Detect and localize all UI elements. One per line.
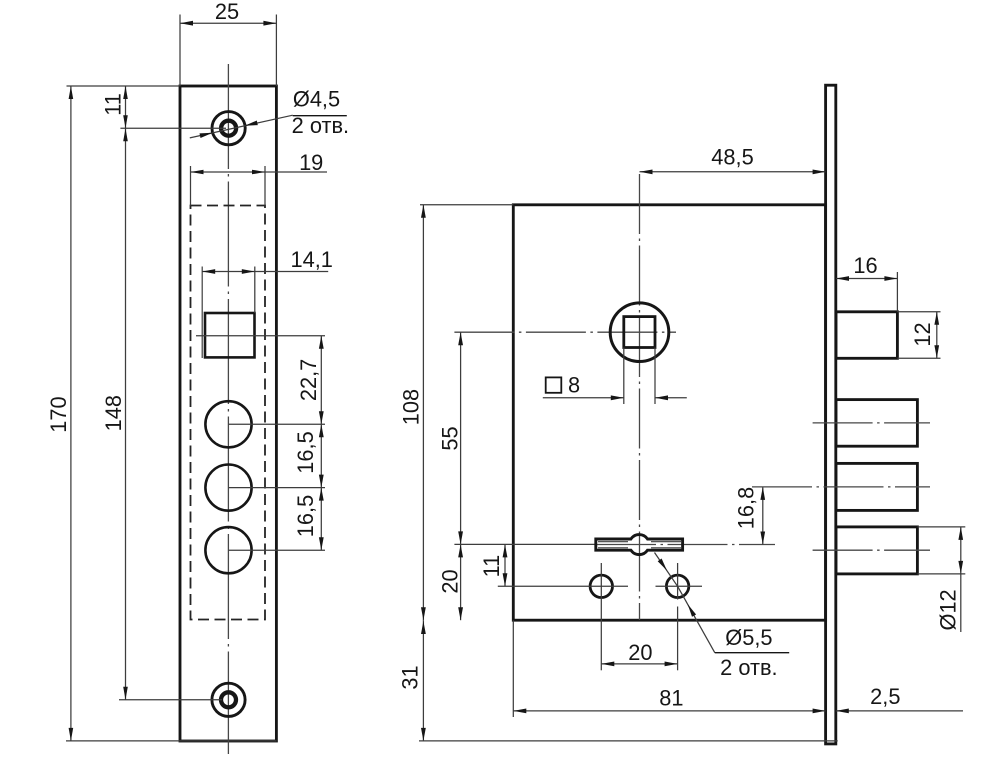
- dimension Ø12 extension lines: [917, 527, 965, 574]
- dimension 19 extension lines: [191, 166, 266, 206]
- dimension 48,5: [640, 145, 826, 175]
- fixing screw hole right Ø5,5: [666, 575, 688, 597]
- dimension square-8 extension lines: [624, 348, 655, 405]
- dimension 81 extension line: [512, 620, 514, 717]
- svg-text:11: 11: [479, 555, 504, 578]
- deadbolt pin 3 centerline: [813, 549, 930, 551]
- top extension line: [67, 85, 180, 87]
- bottom screw hole Ø4,5: [212, 683, 245, 716]
- svg-text:2 отв.: 2 отв.: [292, 113, 349, 138]
- dimension 2,5: [836, 684, 963, 713]
- faceplate front view outline 25x170: [180, 86, 276, 741]
- svg-text:108: 108: [399, 389, 424, 425]
- svg-text:22,7: 22,7: [296, 359, 321, 401]
- dimension Ø12: [936, 527, 963, 632]
- dimension 14,1: [202, 247, 333, 274]
- svg-text:Ø5,5: Ø5,5: [725, 625, 772, 650]
- top screw hole Ø4,5: [212, 112, 245, 145]
- dimension 20 left of body: [438, 544, 463, 620]
- hidden dashed lock-body outline behind faceplate: [191, 206, 266, 620]
- deadbolt pin 1 centerline: [813, 422, 930, 424]
- dimension 148: [101, 128, 128, 700]
- leader line to Ø4,5 label: [190, 115, 293, 138]
- dimension square-8: [543, 395, 687, 400]
- latch bolt cutout square 14,1: [202, 267, 254, 359]
- top screw hole horizontal centerline: [120, 127, 226, 129]
- leader line to Ø5,5 label: [655, 553, 715, 653]
- dimension 11 left view: [101, 86, 128, 128]
- svg-text:55: 55: [438, 426, 463, 450]
- dimension 31: [398, 620, 426, 741]
- dimension 16,5 upper: [293, 424, 324, 487]
- spindle hub vertical centerline: [639, 174, 641, 620]
- svg-text:16,8: 16,8: [733, 487, 758, 529]
- deadbolt pin 2 centerline: [752, 486, 930, 488]
- svg-text:14,1: 14,1: [290, 247, 332, 272]
- svg-text:2 отв.: 2 отв.: [720, 655, 777, 680]
- latch bolt protruding: [836, 312, 897, 359]
- label Ø4,5 2 otv: [292, 87, 349, 138]
- deadbolt hole 3: [205, 527, 325, 573]
- dimension 170: [46, 86, 73, 741]
- fixing screw hole right crosshair: [656, 563, 703, 670]
- deadbolt pin 1: [836, 400, 917, 447]
- deadbolt pin 2: [836, 463, 917, 510]
- deadbolt pin 3: [836, 527, 917, 574]
- dimension 20 bottom: [601, 640, 677, 666]
- dimension 16: [836, 253, 897, 281]
- dimension 81: [513, 686, 825, 714]
- dimension 12 extension lines: [897, 312, 940, 359]
- spindle hub horizontal centerline: [454, 331, 676, 333]
- dimension 25 extension lines: [180, 15, 276, 87]
- svg-text:148: 148: [101, 395, 126, 431]
- svg-text:8: 8: [568, 372, 580, 397]
- dimension 16,5 lower: [293, 488, 324, 551]
- faceplate edge-on strip 2,5 thick: [826, 85, 836, 744]
- dimension 12: [910, 312, 939, 359]
- dimension 11 right view: [479, 544, 507, 586]
- svg-text:170: 170: [46, 396, 71, 432]
- svg-text:2,5: 2,5: [870, 684, 900, 709]
- svg-text:16,5: 16,5: [293, 431, 318, 473]
- svg-text:Ø4,5: Ø4,5: [293, 87, 340, 112]
- fixing screw hole left crosshair: [498, 563, 628, 670]
- key slot centerline dashdot: [596, 544, 775, 546]
- svg-text:11: 11: [101, 93, 126, 116]
- faceplate vertical centerline: [227, 64, 229, 754]
- latch centerline horizontal: [196, 335, 325, 337]
- bottom extension line left view: [66, 740, 277, 742]
- key slot cutout: [596, 535, 683, 555]
- dimension 19: [191, 150, 328, 175]
- svg-text:12: 12: [910, 322, 935, 346]
- svg-text:25: 25: [215, 0, 239, 24]
- slot centerline extension left: [454, 543, 596, 545]
- svg-text:31: 31: [398, 665, 423, 689]
- dimension 108: [399, 205, 426, 620]
- fixing screw hole left Ø5,5: [590, 575, 612, 597]
- bottom screw hole horizontal centerline: [119, 699, 222, 701]
- dimension 25: [180, 0, 276, 26]
- svg-text:16: 16: [853, 253, 877, 278]
- deadbolt hole 1: [205, 401, 325, 447]
- deadbolt hole 2: [205, 465, 325, 511]
- svg-text:20: 20: [628, 640, 652, 665]
- dimension 55: [438, 332, 463, 544]
- svg-text:16,5: 16,5: [293, 495, 318, 537]
- lock body side view outline 81x108: [513, 205, 825, 620]
- bottom extension line right view: [419, 740, 838, 742]
- svg-text:81: 81: [659, 686, 683, 711]
- svg-text:48,5: 48,5: [711, 145, 753, 170]
- spindle square hole 8x8: [624, 317, 655, 348]
- dimension 14,1 extension line right: [254, 267, 256, 314]
- svg-text:Ø12: Ø12: [936, 589, 961, 630]
- dimension 16,8: [733, 487, 765, 545]
- dimension 22,7: [296, 336, 324, 425]
- dimension 108 extension line: [420, 204, 513, 206]
- svg-text:20: 20: [438, 569, 463, 593]
- dimension 16 extension line: [896, 272, 898, 312]
- label square 8: [546, 372, 580, 397]
- label Ø5,5 2 otv: [715, 625, 789, 680]
- svg-text:19: 19: [299, 150, 323, 175]
- spindle hub circle: [610, 303, 669, 362]
